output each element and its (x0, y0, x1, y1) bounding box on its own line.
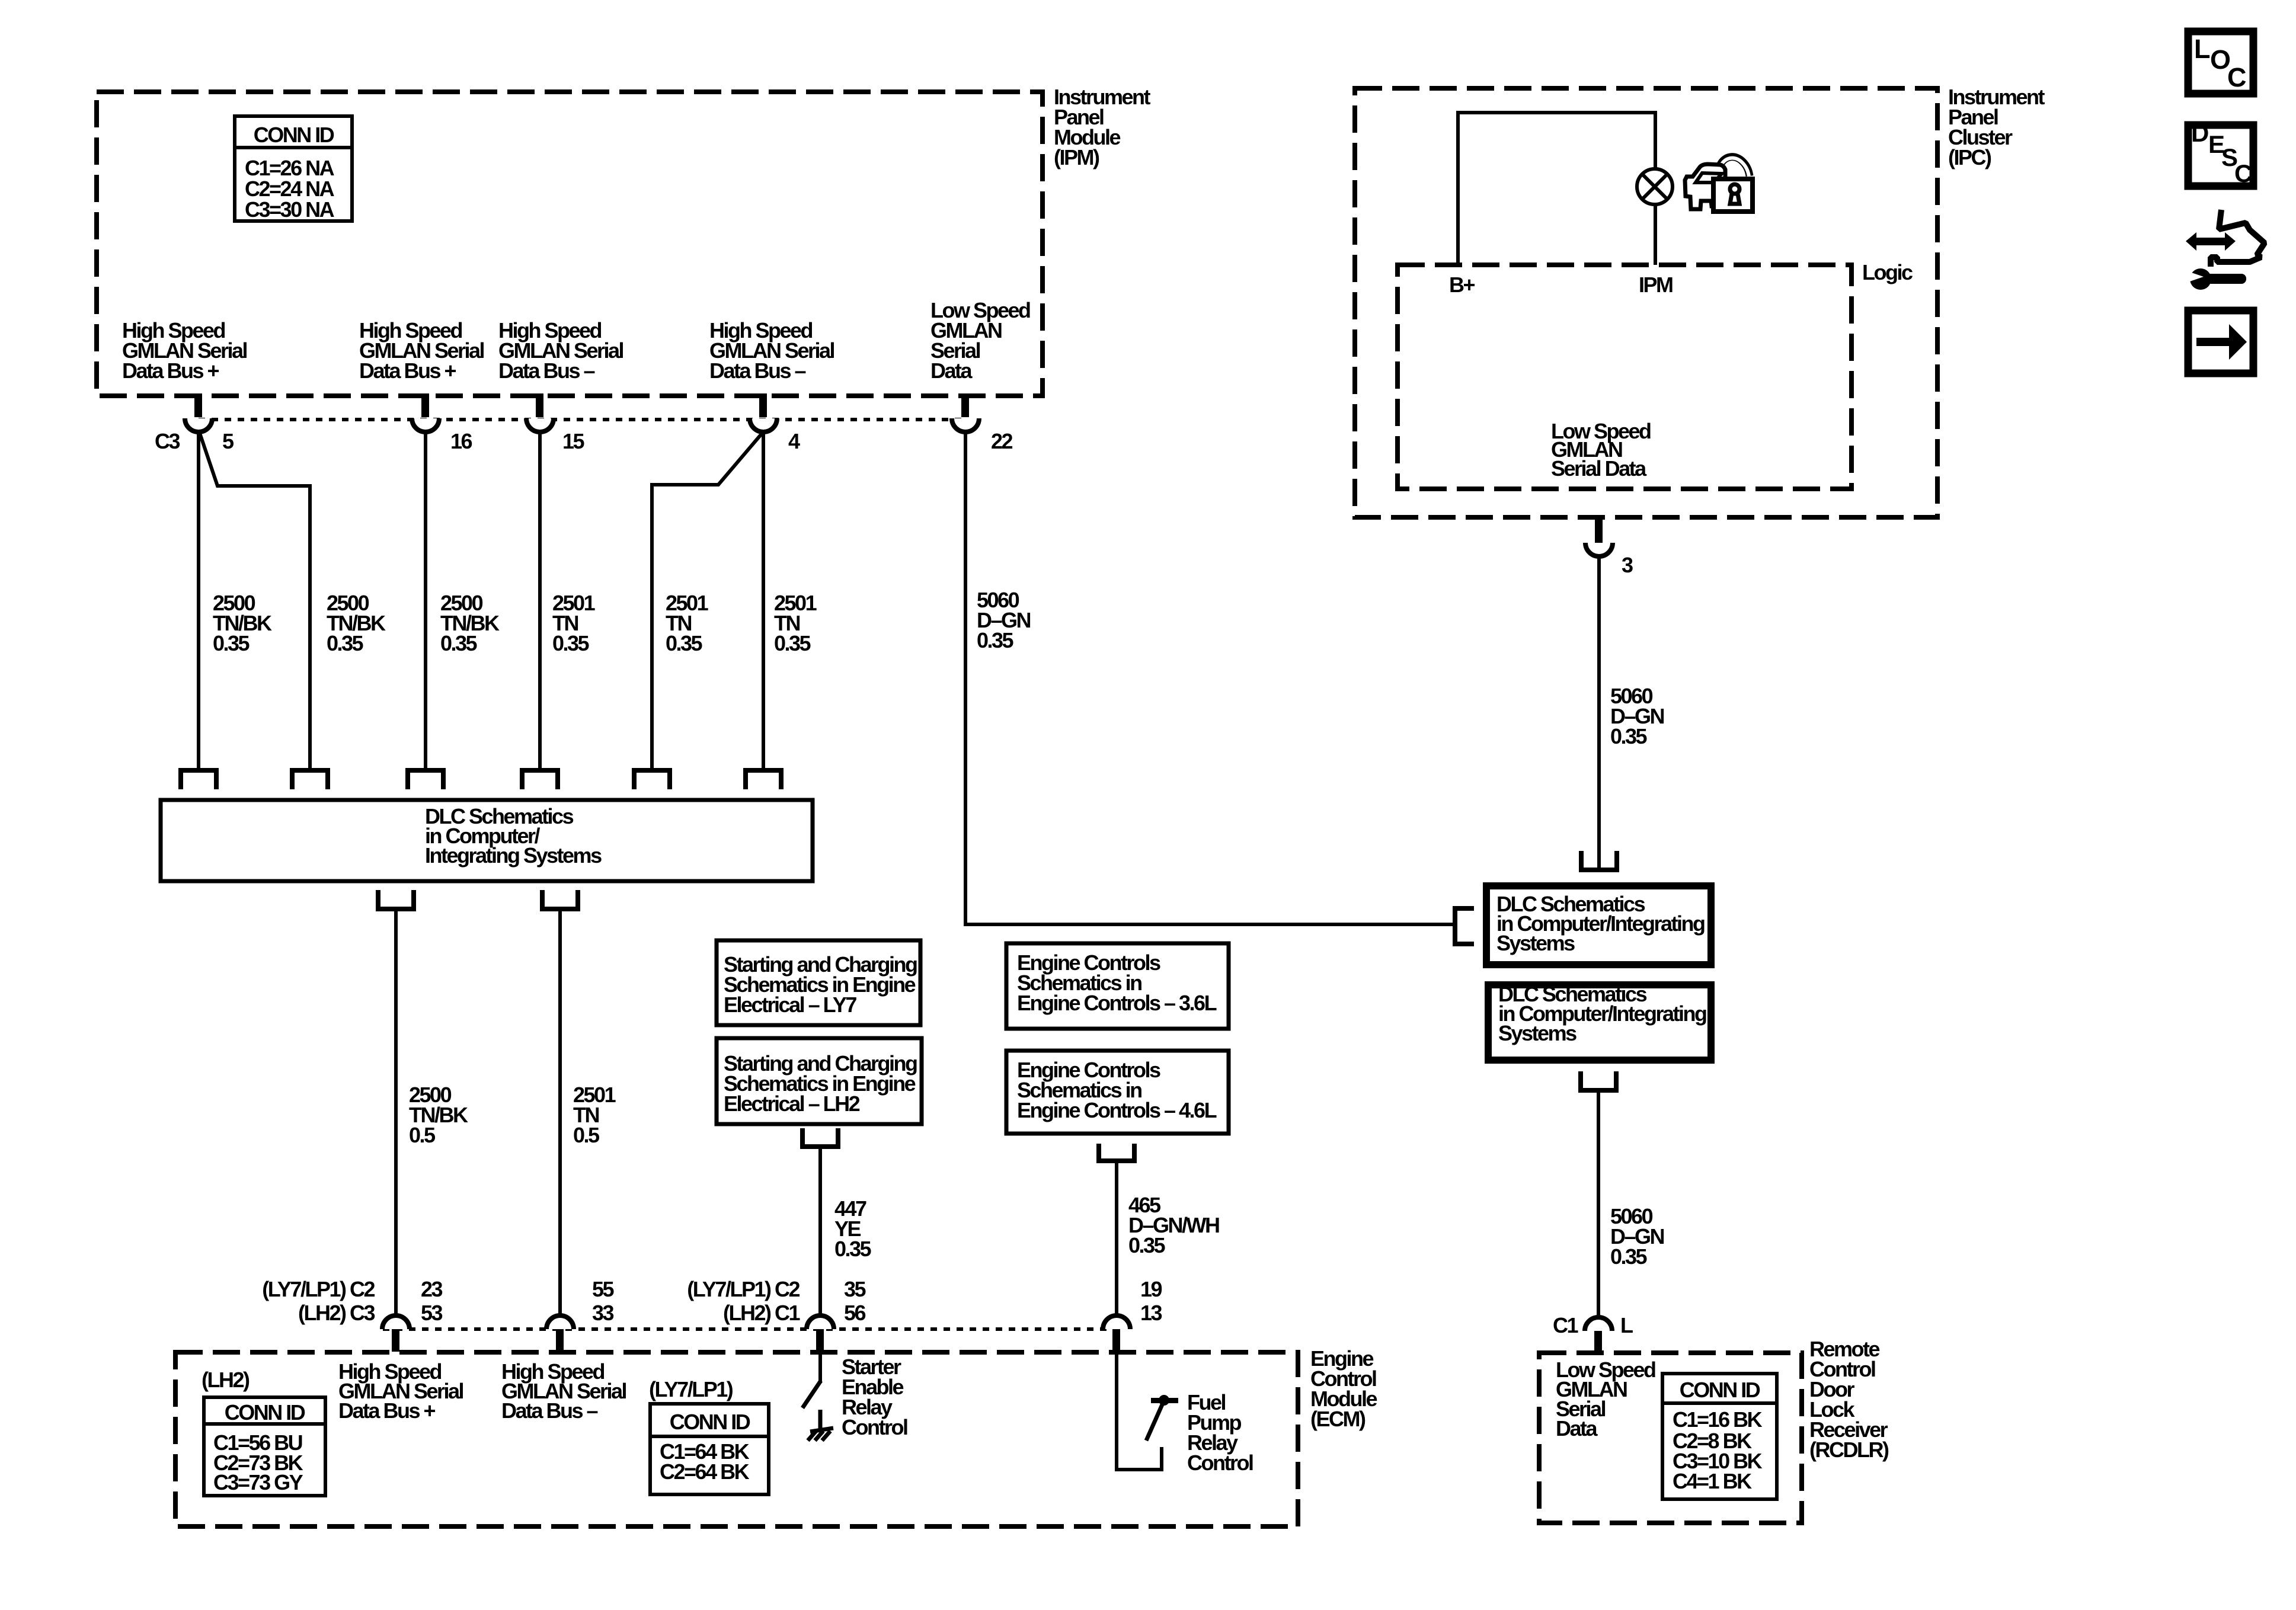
svg-text:L: L (2194, 34, 2210, 64)
svg-text:Data Bus +: Data Bus + (359, 359, 456, 383)
svg-text:CONN ID: CONN ID (1680, 1378, 1760, 1402)
svg-text:Systems: Systems (1496, 931, 1575, 955)
svg-text:Data: Data (1556, 1416, 1598, 1441)
svg-text:5: 5 (222, 429, 234, 453)
svg-text:Serial Data: Serial Data (1551, 456, 1647, 481)
svg-text:C: C (2234, 159, 2252, 187)
svg-text:B+: B+ (1449, 273, 1475, 297)
svg-text:C: C (2227, 62, 2246, 92)
svg-text:0.35: 0.35 (977, 628, 1014, 652)
svg-text:C1=16 BK: C1=16 BK (1673, 1407, 1763, 1432)
svg-text:C1: C1 (1553, 1313, 1578, 1337)
svg-text:Data Bus +: Data Bus + (338, 1398, 436, 1423)
svg-text:(RCDLR): (RCDLR) (1809, 1438, 1889, 1462)
svg-text:0.35: 0.35 (774, 631, 811, 655)
svg-text:3: 3 (1622, 553, 1633, 577)
svg-text:Electrical – LH2: Electrical – LH2 (724, 1092, 860, 1116)
svg-text:0.35: 0.35 (666, 631, 703, 655)
svg-text:Integrating Systems: Integrating Systems (425, 843, 602, 868)
svg-text:Data Bus +: Data Bus + (122, 359, 219, 383)
svg-text:L: L (1620, 1313, 1633, 1337)
svg-text:0.35: 0.35 (327, 631, 364, 655)
svg-text:Control: Control (1187, 1451, 1253, 1475)
svg-text:IPM: IPM (1639, 273, 1673, 297)
svg-text:(ECM): (ECM) (1310, 1407, 1366, 1431)
svg-text:0.35: 0.35 (834, 1237, 872, 1261)
svg-text:0.35: 0.35 (1610, 1244, 1648, 1269)
svg-text:Data: Data (930, 359, 973, 383)
svg-text:(LH2): (LH2) (202, 1368, 250, 1392)
svg-text:(LH2) C1: (LH2) C1 (723, 1301, 800, 1325)
svg-text:C3=73 GY: C3=73 GY (213, 1470, 303, 1494)
svg-text:55: 55 (592, 1277, 615, 1301)
svg-text:D: D (2191, 119, 2208, 147)
svg-text:C3: C3 (155, 429, 180, 453)
svg-text:C2=64 BK: C2=64 BK (660, 1459, 750, 1484)
svg-text:0.5: 0.5 (573, 1123, 600, 1147)
svg-text:(IPC): (IPC) (1948, 145, 1991, 169)
svg-text:C3=30 NA: C3=30 NA (245, 197, 335, 222)
svg-text:16: 16 (450, 429, 472, 453)
svg-text:19: 19 (1140, 1277, 1162, 1301)
svg-text:Data Bus –: Data Bus – (709, 359, 806, 383)
svg-text:(LY7/LP1) C2: (LY7/LP1) C2 (687, 1277, 800, 1301)
svg-text:Electrical – LY7: Electrical – LY7 (724, 993, 856, 1017)
svg-text:15: 15 (562, 429, 585, 453)
svg-text:C4=1 BK: C4=1 BK (1673, 1469, 1752, 1493)
svg-text:(LY7/LP1): (LY7/LP1) (649, 1377, 733, 1401)
svg-text:0.5: 0.5 (409, 1123, 436, 1147)
svg-text:(LH2) C3: (LH2) C3 (298, 1301, 375, 1325)
svg-text:Engine Controls – 4.6L: Engine Controls – 4.6L (1017, 1098, 1217, 1122)
svg-text:4: 4 (788, 429, 800, 453)
svg-text:23: 23 (421, 1277, 443, 1301)
svg-text:33: 33 (592, 1301, 614, 1325)
svg-text:CONN ID: CONN ID (254, 123, 334, 147)
svg-text:Data Bus –: Data Bus – (501, 1398, 598, 1423)
svg-text:Engine Controls – 3.6L: Engine Controls – 3.6L (1017, 991, 1217, 1015)
svg-text:(IPM): (IPM) (1054, 145, 1099, 169)
svg-text:Data Bus –: Data Bus – (498, 359, 595, 383)
svg-text:0.35: 0.35 (1128, 1233, 1166, 1257)
svg-text:CONN ID: CONN ID (670, 1410, 750, 1434)
svg-text:53: 53 (421, 1301, 443, 1325)
svg-text:22: 22 (991, 429, 1013, 453)
svg-text:(LY7/LP1) C2: (LY7/LP1) C2 (262, 1277, 375, 1301)
svg-text:Systems: Systems (1498, 1021, 1576, 1045)
svg-text:Logic: Logic (1862, 260, 1913, 284)
svg-text:35: 35 (844, 1277, 866, 1301)
svg-text:0.35: 0.35 (440, 631, 478, 655)
svg-text:0.35: 0.35 (213, 631, 250, 655)
svg-text:0.35: 0.35 (1610, 724, 1648, 748)
svg-text:56: 56 (844, 1301, 866, 1325)
svg-text:Control: Control (842, 1415, 907, 1439)
svg-text:CONN ID: CONN ID (225, 1400, 305, 1425)
svg-text:0.35: 0.35 (552, 631, 590, 655)
svg-text:13: 13 (1140, 1301, 1162, 1325)
